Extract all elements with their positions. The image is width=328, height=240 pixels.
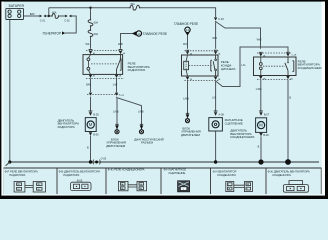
battery BOX [6,8,24,19]
svg-text:G-05: G-05 [101,158,107,161]
connector above clutch [214,112,217,116]
legend cell 1 connector [14,181,45,192]
svg-text:W/L: W/L [183,43,188,46]
svg-text:КОНДЕНСОРА: КОНДЕНСОРА [217,173,236,177]
relay U2 AC relay box [182,55,219,76]
relay U1 pins [89,51,122,78]
wire battery negative [9,20,11,162]
svg-text:ГЛАВНОЕ РЕЛЕ: ГЛАВНОЕ РЕЛЕ [143,32,167,36]
node radiator motor ground [89,160,92,163]
relay U2 connector dashes top [185,50,220,52]
svg-text:C-28: C-28 [292,55,298,57]
svg-text:B-05: B-05 [93,113,99,116]
wire radiator relay to motor [90,78,92,161]
fuse 60A vertical [88,20,93,27]
relay U1 connector dashes bottom [86,77,124,79]
wire AC relay to condenser relay coil [216,47,288,87]
wire radiator fan relay feed [90,8,92,49]
relay U1 switch [117,55,122,75]
motor AC condenser fan [256,118,267,133]
wire main feed to AC relay [215,21,217,49]
svg-text:L/NB: L/NB [138,110,144,113]
svg-text:РАДИАТОРА: РАДИАТОРА [58,125,75,129]
svg-text:C-01: C-01 [40,20,46,23]
magnetic clutch [209,118,223,131]
svg-text:B/R: B/R [30,12,35,16]
generator arrow [62,31,65,34]
svg-text:L/NB: L/NB [183,98,189,101]
relay U3 coil [259,63,262,66]
connector C-02 on battery wire [65,15,71,18]
ECU terminal left [115,123,118,125]
legend cell 6 connector [283,181,308,193]
legend separators [57,168,266,194]
legend cell 4 connector [178,181,190,192]
node AC motor ground [258,159,263,164]
svg-text:РАДИАТОРА: РАДИАТОРА [63,173,79,177]
wire main relay 2 to AC relay coil [187,35,189,49]
svg-text:B-06: B-06 [263,134,269,137]
connector below radiator motor [89,132,92,135]
LEGEND [3,168,321,194]
wire battery positive feed [24,16,77,33]
svg-text:БАТАРЕЯ: БАТАРЕЯ [9,4,25,8]
relay U1 connector dashes top [86,49,124,51]
main relay 1 [132,31,137,35]
wire AC relay to clutch [215,80,217,161]
relay U1 coil [87,58,90,61]
svg-text:C-02: C-02 [64,20,70,23]
node clutch ground [214,160,217,163]
svg-text:B-06: B-06 [93,133,99,136]
svg-text:60A: 60A [94,22,99,25]
connector below AC motor [259,133,262,136]
svg-text:L/NG: L/NG [256,88,262,91]
svg-text:РАДИАТОРА: РАДИАТОРА [9,173,25,177]
wire ground bus [10,161,319,163]
svg-text:ЦИОНЕРА: ЦИОНЕРА [221,67,236,71]
svg-text:РАЗЪЕМ: РАЗЪЕМ [141,141,154,145]
legend frame [3,168,321,194]
fusible link 30A vertical [88,30,93,37]
relay U3 link dashed [263,65,285,67]
wire AC relay coil to ECU [187,80,189,114]
relay U2 connector dashes bottom [185,79,220,81]
diagnostic terminal [140,123,143,125]
connector above AC motor [259,112,262,116]
node junction top rail [89,7,91,9]
connector above radiator motor [89,112,92,116]
wire main relay 1 to relay pin [121,34,133,49]
svg-text:L/G: L/G [212,97,216,100]
svg-text:Ф-Ю РЕЛЕ КОНДИЦИОНЕРА: Ф-Ю РЕЛЕ КОНДИЦИОНЕРА [108,168,145,172]
svg-text:W/B: W/B [118,43,123,46]
svg-text:ГЛАВНОЕ РЕЛЕ: ГЛАВНОЕ РЕЛЕ [174,22,198,26]
svg-text:ДВИГАТЕЛЕМ: ДВИГАТЕЛЕМ [106,144,126,148]
svg-text:КОНДИЦИОНЕРА: КОНДИЦИОНЕРА [298,66,323,70]
relay U2 coil [184,61,189,69]
svg-text:L/G: L/G [241,64,245,67]
relay U2 link dashed [189,65,213,67]
relay U2 switch [211,55,216,76]
motor radiator fan [85,118,96,132]
relay U3 condenser fan relay box [254,57,297,76]
svg-text:W/R: W/R [212,37,217,40]
connector C-01 on battery wire [40,15,46,18]
svg-text:ГЕНЕРАТОР: ГЕНЕРАТОР [43,32,61,36]
outer border [0,0,328,2]
ECU terminal mid [186,112,189,114]
relay U3 connector dashes top [257,52,292,54]
relay U2 pins [186,50,218,80]
svg-text:ДВИГАТЕЛЕМ: ДВИГАТЕЛЕМ [181,133,201,137]
svg-text:A-08: A-08 [219,113,225,116]
wire condenser relay to ground [287,80,289,162]
svg-text:W/L: W/L [86,43,91,46]
svg-text:1: 1 [228,184,229,186]
svg-text:C-02: C-02 [119,95,125,97]
node junction battery riser [48,15,50,17]
svg-text:C-03: C-03 [218,18,224,21]
relay U1 radiator fan relay box [83,55,123,75]
svg-text:L/W: L/W [113,83,118,86]
svg-text:L/NB: L/NB [113,110,119,113]
wire top rail [49,8,216,17]
svg-text:M: M [259,123,263,128]
connector chevron on AC feed [214,17,217,20]
node battery ground [8,160,11,163]
relay U3 switch [285,57,294,76]
svg-text:РАДИАТОРА: РАДИАТОРА [128,68,146,72]
svg-text:30A: 30A [94,33,99,36]
svg-text:СЦЕПЛЕНИЕ: СЦЕПЛЕНИЕ [168,171,185,175]
wire branch to condenser relay [216,22,261,49]
svg-text:КОНДЕНСОРА: КОНДЕНСОРА [272,173,291,177]
svg-text:B-07: B-07 [264,113,270,116]
legend cell 5 connector [226,181,253,191]
legend cell 3 connector [118,181,146,190]
ground point symbol [95,161,98,164]
svg-text:B/W: B/W [86,83,91,86]
wire radiator relay coil to ECU split [117,78,142,129]
inline connector C-02 below relay U1 [87,93,120,95]
svg-text:14: 14 [137,32,141,36]
svg-text:14: 14 [186,28,190,32]
svg-text:W/G: W/G [257,39,262,42]
svg-text:КОНДИЦИОНЕРА: КОНДИЦИОНЕРА [230,135,254,139]
relay U3 pins [259,52,290,79]
svg-text:9: 9 [247,189,248,191]
wire riser to top rail [48,8,50,16]
svg-text:СЦЕПЛЕНИЕ: СЦЕПЛЕНИЕ [225,121,243,125]
node condenser relay ground [285,159,291,165]
relay U3 connector dashes bottom [257,79,292,81]
relay U1 link dashed [91,63,119,65]
wire condenser relay to AC fan motor [260,80,262,162]
svg-text:M: M [89,122,93,127]
